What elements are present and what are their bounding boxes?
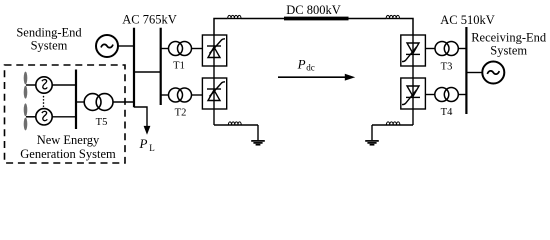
svg-text:Generation System: Generation System [20, 147, 116, 161]
valve box VB3 (inverter top) [401, 35, 426, 66]
plant bus [75, 70, 77, 130]
wire ground drop right [371, 125, 373, 140]
wind turbine WT1 blades [24, 72, 28, 99]
thyristor V4 [402, 78, 420, 109]
wire DC line right [349, 18, 387, 20]
wire WT2 to plant bus [52, 116, 76, 118]
svg-text:L: L [149, 143, 155, 153]
wire VB4 down [412, 109, 414, 125]
wire DC line to VB3 [400, 19, 413, 36]
wire G1 to bus1 [118, 45, 134, 47]
wire bottom left run [214, 124, 258, 126]
label Receiving-End System [471, 30, 547, 57]
ground electrode left [251, 141, 265, 145]
thyristor V1 [207, 35, 225, 66]
svg-text:T3: T3 [441, 61, 453, 72]
transformer T4 [435, 88, 459, 102]
wire T3 to bus3 [458, 48, 466, 50]
thyristor V3 [402, 35, 420, 66]
svg-text:P: P [297, 56, 306, 71]
valve box VB4 (inverter bottom) [401, 78, 426, 109]
svg-text:AC 510kV: AC 510kV [440, 13, 495, 27]
svg-text:dc: dc [306, 63, 315, 73]
svg-text:P: P [139, 136, 148, 151]
wire T5 to bus1 [113, 101, 134, 103]
wire VB1-VB2 link [213, 66, 215, 78]
svg-text:T5: T5 [96, 117, 108, 128]
wire VB4 to T4 [425, 94, 434, 96]
wire VB1 up to DC line [214, 19, 228, 36]
svg-text:T4: T4 [441, 107, 453, 118]
smoothing reactor L1 (top left) [228, 15, 241, 18]
wire bottom right run [372, 124, 413, 126]
AC source G1 (sending end) [96, 35, 118, 57]
wire T4 to bus3 [458, 94, 466, 96]
ground electrode right [365, 141, 379, 145]
grounding reactor L4 (bottom right) [386, 122, 399, 125]
valve box VB1 (rectifier top) [202, 35, 226, 66]
AC source G2 (receiving end) [482, 62, 504, 84]
wire bus2 to T1 [161, 48, 169, 50]
wire plant bus to T5 [76, 101, 84, 103]
wire VB3-VB4 link [412, 66, 414, 78]
wire T1 to valve box VB1 [192, 48, 203, 50]
valve box VB2 (rectifier bottom) [202, 78, 226, 109]
transformer T1 [169, 42, 192, 56]
wire bus1-bus2 tie [134, 71, 161, 73]
svg-text:T1: T1 [173, 61, 185, 72]
wire VB3 to T3 [425, 48, 435, 50]
svg-text:Receiving-End: Receiving-End [471, 30, 547, 44]
wind turbine WT2 blades [24, 103, 28, 130]
wire bus2 to T2 [161, 94, 169, 96]
arrow P_L [144, 126, 151, 135]
ellipsis dots between turbines [43, 97, 45, 108]
wind turbine WT2 generator [26, 109, 52, 125]
wire VB2 down [213, 109, 215, 125]
svg-text:New Energy: New Energy [37, 133, 100, 147]
svg-text:Sending-End: Sending-End [16, 26, 82, 40]
svg-text:System: System [490, 43, 527, 57]
grounding reactor L3 (bottom left) [228, 122, 241, 125]
wire DC line left [241, 18, 284, 20]
svg-text:System: System [31, 39, 68, 53]
label Sending-End System [16, 26, 82, 53]
bus3 AC510 [465, 27, 467, 114]
svg-text:DC 800kV: DC 800kV [286, 3, 341, 17]
transformer T2 [169, 88, 192, 102]
smoothing reactor L2 (top right) [386, 15, 399, 18]
wind turbine WT1 generator [26, 77, 52, 93]
dashed box New Energy Generation System [5, 65, 126, 163]
transformer T5 [84, 94, 113, 111]
wire bus3 to G2 [466, 72, 481, 74]
wire T2 to valve box VB2 [192, 94, 203, 96]
bus1 AC765 left [133, 28, 135, 107]
svg-text:T2: T2 [175, 107, 187, 118]
thyristor V2 [207, 78, 225, 109]
wire ground drop left [257, 125, 259, 140]
wire WT1 to plant bus [52, 84, 76, 86]
wire P_L tap [134, 107, 147, 128]
transformer T3 [435, 42, 458, 56]
bus2 AC765 right [160, 28, 162, 105]
svg-text:AC 765kV: AC 765kV [122, 12, 177, 26]
arrow P_dc [278, 76, 346, 78]
DC overhead line (thick bar) [284, 17, 349, 21]
